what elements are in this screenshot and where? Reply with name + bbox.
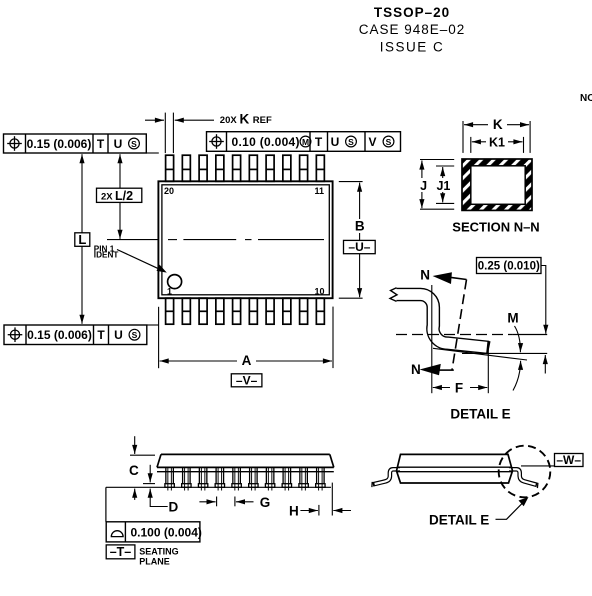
svg-text:NO: NO [580,93,592,104]
L label box [75,233,90,247]
N arrow bottom [439,369,454,371]
svg-text:S: S [386,137,392,147]
lead foot end cap [487,341,490,353]
bottom lead 7 [266,298,274,324]
H dimension [300,483,351,516]
B dimension [339,181,363,183]
svg-text:SECTION N–N: SECTION N–N [452,220,539,235]
datum frame top-left: position 0.15 (0.006) T U S [4,134,147,153]
-U- datum box [344,240,376,253]
frame bottom edge extension [146,152,159,154]
svg-text:U: U [114,328,123,342]
svg-text:U: U [114,137,123,151]
K1 dimension [471,137,524,153]
side view lead 6 [249,467,258,490]
svg-text:–V–: –V– [236,373,258,387]
top lead 11 [316,155,324,181]
right lead tip cap [536,483,539,488]
top lead 14 [266,155,274,181]
detail E leader arrow [496,502,525,520]
frame top edge extension [147,324,159,326]
package body inner outline [162,185,329,295]
svg-text:F: F [455,380,463,395]
side view lead 7 [265,467,274,490]
20X K REF dimension [145,113,214,154]
position symbol [7,136,22,151]
svg-text:DETAIL E: DETAIL E [450,407,510,422]
top lead 20 [166,155,174,181]
svg-text:SEATING: SEATING [139,547,178,557]
svg-text:CASE 948E–02: CASE 948E–02 [359,22,466,37]
centerline dash-dot inside body [168,239,324,241]
svg-text:U: U [331,135,340,149]
pin 1 ident leader [117,250,163,271]
F left extension line (through lead) [431,285,433,393]
svg-text:10: 10 [315,286,325,296]
dashed center line of lead [396,334,512,336]
svg-text:ISSUE C: ISSUE C [380,39,445,54]
-V- datum box [231,374,262,387]
datum frame bottom-left: position 0.15 (0.006) T U S [4,325,147,345]
B label [352,219,367,233]
top lead 16 [233,155,241,181]
flatness symbol [111,531,123,537]
side view lead 10 [316,467,325,490]
svg-text:PLANE: PLANE [139,556,170,566]
bottom lead 10 [316,298,324,324]
svg-text:REF: REF [253,115,272,126]
detail E circle (dashed) [499,446,551,498]
parting lines [398,466,512,468]
body profile [157,454,334,471]
G dimension [199,497,253,507]
svg-text:H: H [289,504,299,519]
package body outer outline [158,181,332,298]
svg-text:20: 20 [164,186,174,196]
side view lead 8 [282,467,291,490]
svg-text:M: M [507,311,518,326]
top lead 18 [199,155,207,181]
top lead 17 [216,155,224,181]
bottom lead 2 [182,298,190,324]
side view lead 2 [182,467,191,490]
lead body (outlined bent lead) [396,294,489,347]
A dimension [159,307,333,369]
svg-text:0.25 (0.010): 0.25 (0.010) [478,260,540,272]
bottom lead 8 [283,298,291,324]
M angle arcs [513,326,521,391]
svg-text:J: J [420,179,427,193]
svg-text:–W–: –W– [556,453,581,467]
bottom lead 3 [199,298,207,324]
seating plane line [106,486,331,488]
svg-text:L/2: L/2 [115,189,133,203]
top lead 12 [300,155,308,181]
0.25 leader and arrows [541,266,546,374]
svg-text:S: S [348,137,354,147]
foot plane line (angled) [433,348,527,360]
F dimension [433,387,488,389]
svg-text:J1: J1 [436,179,450,193]
2X L/2 label box [97,188,142,202]
left lead [373,469,400,484]
side view lead 1 [165,467,174,490]
section inner opening [471,166,525,205]
C dimension [130,436,155,500]
svg-text:S: S [131,139,137,149]
svg-text:D: D [169,500,179,515]
svg-text:IDENT: IDENT [94,251,119,260]
0.25 (0.010) dimension box [477,258,542,274]
svg-text:2X: 2X [101,191,113,202]
lower horizontal reference line [462,352,547,354]
svg-text:20X: 20X [220,115,238,126]
-W- leader [521,465,555,467]
svg-text:DETAIL E: DETAIL E [429,513,489,528]
svg-text:–T–: –T– [110,545,132,559]
svg-text:M: M [302,137,309,147]
svg-text:T: T [97,137,105,151]
J1 dimension [436,166,454,203]
J dimension [420,160,454,210]
bottom lead 6 [249,298,257,324]
top lead 15 [249,155,257,181]
bottom lead 9 [300,298,308,324]
-T- datum box [106,545,135,559]
body end profile [397,454,513,483]
L dimension [81,154,83,324]
side view lead 4 [215,467,224,490]
svg-text:C: C [129,463,139,478]
svg-text:G: G [260,495,271,510]
N arrow top [449,277,467,279]
flatness datum frame 0.100 (0.004) [106,522,200,542]
left lead tip cap [371,482,373,487]
svg-text:–U–: –U– [348,240,370,254]
top lead 13 [283,155,291,181]
-W- datum box [555,454,584,467]
bottom lead 4 [216,298,224,324]
svg-text:11: 11 [315,186,325,196]
svg-text:V: V [368,135,376,149]
svg-text:T: T [315,135,323,149]
position symbol [8,327,23,342]
datum frame top: position 0.10 (0.004) M T U S V S [207,132,401,152]
svg-text:B: B [355,219,365,234]
F right extension line [487,344,489,393]
svg-text:K: K [240,112,250,127]
pin 1 ident circle [168,275,182,289]
side view lead 5 [232,467,241,490]
svg-text:0.15 (0.006): 0.15 (0.006) [27,328,92,342]
2X L/2 dimension [119,154,121,239]
side view lead 9 [299,467,308,490]
section cut hatched band [462,159,532,210]
bottom lead 1 [166,298,174,324]
svg-text:S: S [132,330,138,340]
svg-text:A: A [242,353,252,368]
svg-text:0.15 (0.006): 0.15 (0.006) [27,137,92,151]
svg-text:K: K [493,117,503,132]
svg-text:N: N [411,362,421,377]
section line N-N (dashed) [452,280,467,371]
svg-text:L: L [78,232,86,247]
svg-text:N: N [420,268,430,283]
right lead [509,469,537,485]
svg-text:T: T [97,328,105,342]
position symbol [209,134,224,149]
centerline left extension [107,239,158,241]
K dimension [463,121,530,153]
bottom lead 5 [233,298,241,324]
side view lead 3 [198,467,207,490]
D dimension [143,465,168,507]
svg-text:TSSOP–20: TSSOP–20 [374,5,450,20]
top lead 19 [182,155,190,181]
seating plane datum leg [105,487,107,522]
svg-text:0.100 (0.004): 0.100 (0.004) [131,526,202,540]
lead break (left end) [390,288,397,302]
svg-text:K1: K1 [489,135,505,149]
svg-text:0.10 (0.004): 0.10 (0.004) [232,135,300,149]
